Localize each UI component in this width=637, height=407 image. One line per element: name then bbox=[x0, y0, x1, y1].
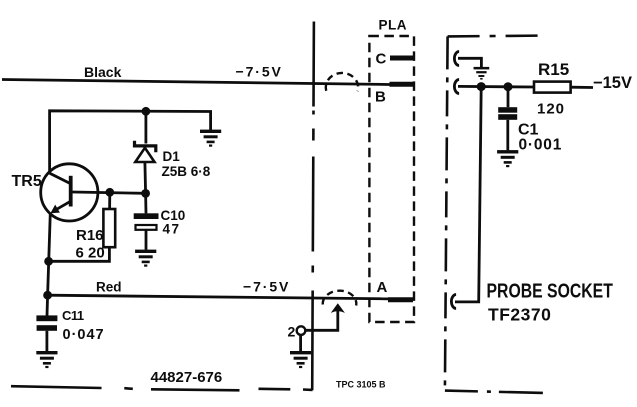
node junction dot base/R16 bbox=[105, 188, 114, 197]
wire collector rail bbox=[50, 111, 211, 174]
svg-text:C: C bbox=[376, 51, 387, 68]
ground under C11 bbox=[36, 351, 57, 368]
pin A bar bbox=[388, 297, 413, 302]
wire R16 bottom lead bbox=[49, 247, 110, 261]
svg-text:Red: Red bbox=[96, 280, 122, 295]
wire C1 bottom lead bbox=[506, 120, 509, 151]
svg-text:44827-676: 44827-676 bbox=[151, 369, 223, 386]
transistor TR5 collector diagonal bbox=[50, 173, 70, 183]
svg-text:R16: R16 bbox=[76, 227, 104, 244]
node terminal 2 circle bbox=[297, 326, 306, 335]
wire C11 bottom lead bbox=[46, 331, 49, 351]
ground socket1 bbox=[474, 67, 490, 80]
wire socket1 to ground bbox=[458, 58, 481, 67]
svg-text:6 20: 6 20 bbox=[76, 245, 105, 262]
node junction dot probe lead bbox=[477, 82, 486, 91]
wire terminal 2 ground lead bbox=[299, 335, 302, 351]
socket pin 2 bbox=[454, 80, 459, 94]
wire D1 anode lead bbox=[143, 162, 147, 193]
pin B bar bbox=[390, 82, 414, 87]
probe socket screen boundary top bbox=[448, 34, 542, 37]
svg-text:A: A bbox=[377, 279, 388, 296]
capacitor C10 top plate bbox=[134, 213, 159, 219]
svg-text:TF2370: TF2370 bbox=[488, 305, 551, 325]
node junction dot D1/C10 bbox=[141, 189, 150, 198]
ground under terminal 2 bbox=[290, 351, 311, 368]
wire dashed screen vertical bbox=[312, 22, 314, 391]
svg-text:PROBE SOCKET: PROBE SOCKET bbox=[487, 280, 613, 302]
svg-text:TR5: TR5 bbox=[12, 173, 42, 190]
node junction dot red rail bbox=[43, 291, 52, 300]
capacitor C10 bottom plate bbox=[136, 225, 157, 230]
node arrow to red rail bbox=[331, 303, 345, 313]
resistor R16 bbox=[103, 209, 115, 247]
wire R16 top lead bbox=[108, 192, 111, 209]
svg-text:B: B bbox=[375, 89, 386, 106]
wire socket2 to R15 bbox=[458, 85, 534, 88]
node junction dot C1 bbox=[504, 82, 513, 91]
svg-text:C11: C11 bbox=[62, 308, 84, 323]
capacitor C11 bottom plate bbox=[37, 325, 57, 331]
wire C10 top lead bbox=[144, 193, 147, 213]
socket pin 1 bbox=[454, 52, 459, 66]
resistor R15 bbox=[534, 82, 571, 93]
node junction dot R16 return bbox=[44, 257, 53, 266]
ground under C10 bbox=[135, 250, 156, 267]
svg-text:Z5B 6·8: Z5B 6·8 bbox=[162, 164, 211, 179]
probe socket screen boundary bottom bbox=[445, 391, 546, 393]
transistor TR5 emitter arrow bbox=[50, 205, 60, 214]
svg-text:−7·5V: −7·5V bbox=[236, 64, 283, 80]
wire C10 bottom lead bbox=[145, 230, 148, 250]
diode D1 triangle bbox=[135, 148, 154, 162]
wire hop arc bottom bbox=[323, 291, 357, 306]
border bottom dashes bbox=[11, 386, 313, 390]
pin C bar bbox=[390, 56, 414, 61]
svg-text:0·047: 0·047 bbox=[63, 327, 105, 343]
socket pin 3 bbox=[451, 295, 456, 309]
svg-text:PLA: PLA bbox=[379, 18, 408, 33]
wire base to junctions bbox=[73, 192, 146, 193]
wire R15 to -15V bbox=[571, 86, 593, 89]
svg-text:R15: R15 bbox=[538, 60, 569, 79]
svg-text:TPC 3105 B: TPC 3105 B bbox=[336, 380, 386, 390]
svg-text:47: 47 bbox=[163, 222, 181, 237]
PLA connector box bbox=[369, 36, 414, 322]
wire probe long vertical bbox=[455, 87, 481, 302]
node junction dot D1 top bbox=[142, 107, 151, 116]
svg-text:0·001: 0·001 bbox=[519, 137, 563, 154]
svg-text:D1: D1 bbox=[163, 149, 181, 164]
transistor TR5 circle bbox=[41, 164, 98, 221]
wire D1 cathode lead bbox=[144, 111, 147, 143]
diode D1 zener bar bbox=[135, 141, 156, 153]
wire Black rail -7.5V bbox=[2, 80, 390, 85]
wire C11 top lead bbox=[46, 295, 49, 315]
capacitor C11 top plate bbox=[36, 315, 57, 321]
probe socket screen boundary vertical bbox=[445, 36, 448, 390]
svg-text:−15V: −15V bbox=[593, 74, 632, 92]
transistor TR5 base bar bbox=[69, 176, 73, 207]
ground top middle bbox=[200, 130, 221, 147]
svg-text:−7·5V: −7·5V bbox=[243, 279, 290, 295]
svg-text:120: 120 bbox=[537, 101, 565, 118]
wire Red rail bbox=[48, 295, 388, 299]
wire terminal 2 link bbox=[305, 311, 338, 330]
svg-text:2: 2 bbox=[288, 324, 296, 340]
svg-text:Black: Black bbox=[84, 64, 122, 80]
transistor TR5 emitter diagonal bbox=[54, 201, 71, 211]
capacitor C1 top plate bbox=[498, 107, 517, 113]
wire C1 top lead bbox=[507, 87, 510, 108]
capacitor C1 bottom plate bbox=[498, 114, 517, 120]
wire hop arc top bbox=[326, 73, 358, 91]
wire emitter down bbox=[48, 213, 51, 295]
ground under C1 bbox=[497, 150, 518, 167]
